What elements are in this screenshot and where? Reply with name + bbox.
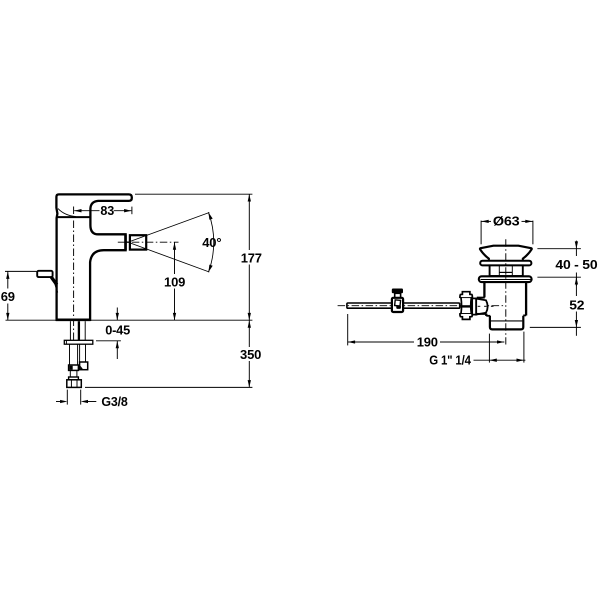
svg-text:0-45: 0-45 <box>105 323 130 338</box>
svg-text:Ø63: Ø63 <box>493 214 520 229</box>
svg-text:40°: 40° <box>202 235 221 250</box>
svg-text:G 1" 1/4: G 1" 1/4 <box>429 352 471 367</box>
svg-text:40 - 50: 40 - 50 <box>555 257 597 272</box>
svg-text:G3/8: G3/8 <box>101 394 127 409</box>
svg-text:83: 83 <box>100 203 114 218</box>
svg-text:177: 177 <box>241 250 262 265</box>
svg-text:350: 350 <box>240 347 261 362</box>
svg-text:69: 69 <box>1 289 15 304</box>
svg-text:52: 52 <box>569 297 584 312</box>
svg-text:190: 190 <box>417 335 438 350</box>
svg-text:109: 109 <box>164 274 185 289</box>
